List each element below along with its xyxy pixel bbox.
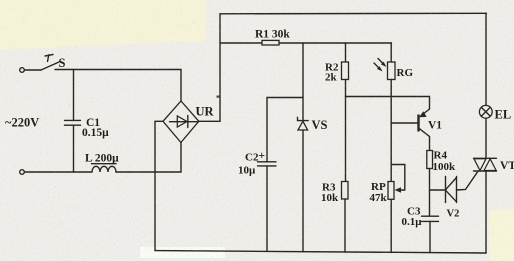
wire inductor to bridge bottom bbox=[116, 143, 181, 173]
wire bottom rail bbox=[155, 251, 486, 253]
resistor R3 10k bbox=[342, 182, 349, 253]
wire bridge minus output to bottom rail bbox=[155, 121, 163, 250]
light arrows into RG bbox=[374, 59, 387, 72]
terminal upper AC input bbox=[20, 68, 25, 73]
terminal lower AC input bbox=[20, 170, 25, 175]
wire emitter branch from R2/R3 tap bbox=[346, 97, 430, 110]
wire lower to inductor bbox=[24, 171, 92, 173]
photoresistor RG column bbox=[388, 43, 396, 182]
inductor L 200u bbox=[92, 164, 117, 172]
switch S bbox=[24, 55, 59, 71]
resistor R1 30k bbox=[262, 40, 279, 45]
junction smudge bbox=[217, 96, 220, 98]
wire S to bridge top bbox=[55, 70, 181, 102]
zener diode VS bbox=[298, 43, 309, 252]
transistor V1 (PNP) bbox=[419, 109, 430, 137]
wire bridge plus output to top rail bbox=[199, 14, 220, 122]
resistor R2 2k column bbox=[342, 43, 349, 182]
lamp EL bbox=[479, 13, 492, 253]
capacitor C3 bbox=[422, 190, 439, 253]
capacitor C2 bbox=[258, 98, 304, 252]
diac V2 bbox=[430, 171, 479, 202]
triac VT bbox=[474, 158, 497, 171]
wire base branch from RG/RP tap bbox=[391, 122, 417, 124]
capacitor C1 bbox=[65, 70, 81, 173]
wire R1 branch bbox=[220, 42, 392, 44]
potentiometer RP 47k bbox=[388, 165, 405, 253]
resistor R4 100k bbox=[427, 137, 433, 191]
wire top rail bbox=[220, 12, 487, 15]
bridge rectifier UR bbox=[163, 101, 199, 143]
